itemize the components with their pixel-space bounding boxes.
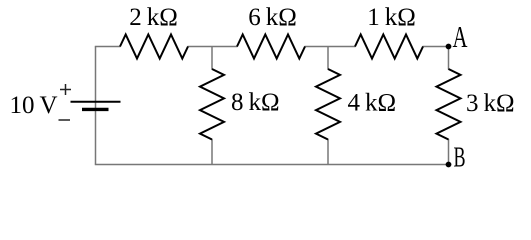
- battery V1 10 V: [71, 102, 121, 110]
- wire: 4k branch bottom stub: [327, 139, 329, 165]
- resistor 2 kOhm (horizontal): [120, 35, 188, 59]
- wire: top rail segment node1 to R2k: [95, 46, 121, 48]
- node B (junction dot): [446, 162, 452, 168]
- label: 10 V: [10, 92, 58, 119]
- label: 3 kOhm: [466, 90, 515, 117]
- wire: top rail segment R1k to node A: [423, 46, 449, 48]
- label: 2 kOhm: [129, 4, 178, 31]
- wire: 3k branch top stub: [448, 47, 450, 70]
- wire: 8k branch top stub: [211, 47, 213, 70]
- svg-text:B: B: [454, 142, 466, 174]
- label: node A: [453, 19, 468, 54]
- label: node B: [454, 142, 466, 174]
- minus sign of battery: [59, 119, 71, 121]
- resistor 6 kOhm (horizontal): [237, 35, 305, 59]
- resistor 1 kOhm (horizontal): [355, 35, 423, 59]
- node A (junction dot): [446, 44, 452, 50]
- svg-text:10 V: 10 V: [10, 92, 58, 119]
- svg-text:4 kΩ: 4 kΩ: [348, 90, 397, 117]
- wire: bottom rail: [95, 164, 449, 166]
- label: 8 kOhm: [231, 89, 280, 116]
- svg-text:3 kΩ: 3 kΩ: [466, 90, 515, 117]
- wire: 4k branch top stub: [327, 47, 329, 70]
- label: 4 kOhm: [348, 90, 397, 117]
- wire: 8k branch bottom stub: [211, 139, 213, 165]
- wire: 3k branch bottom stub: [448, 139, 450, 165]
- wire: top rail segment R2k to R6k: [188, 46, 238, 48]
- resistor 8 kOhm (vertical): [200, 69, 224, 140]
- label: 1 kOhm: [367, 4, 416, 31]
- svg-text:2 kΩ: 2 kΩ: [129, 4, 178, 31]
- wire: left rail (battery branch): [95, 47, 97, 165]
- label: 6 kOhm: [248, 4, 297, 31]
- svg-text:8 kΩ: 8 kΩ: [231, 89, 280, 116]
- svg-text:1 kΩ: 1 kΩ: [367, 4, 416, 31]
- svg-text:6 kΩ: 6 kΩ: [248, 4, 297, 31]
- wire: top rail segment R6k to R1k: [305, 46, 356, 48]
- resistor 3 kOhm (vertical): [437, 69, 461, 140]
- plus sign of battery: [60, 84, 71, 95]
- svg-text:A: A: [453, 19, 468, 54]
- resistor 4 kOhm (vertical): [316, 69, 340, 140]
